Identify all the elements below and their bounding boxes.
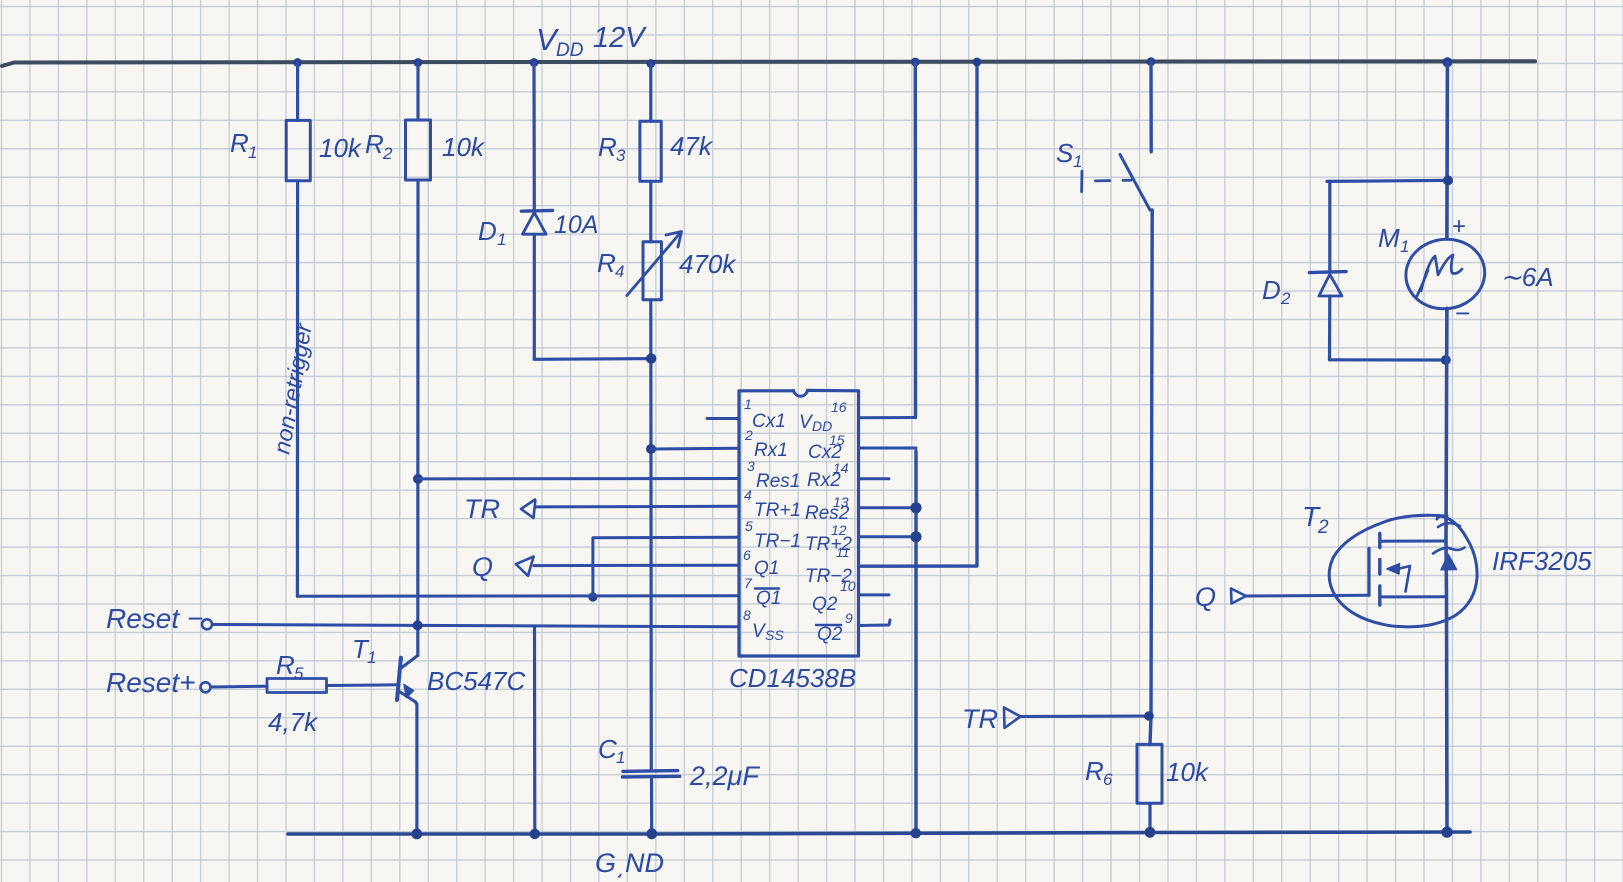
pin 2 label Rx1 <box>744 427 788 461</box>
svg-text:16: 16 <box>831 399 847 415</box>
node junction dot VDD/TR-2 column <box>973 58 982 67</box>
node VDD label 12V <box>536 22 647 61</box>
motor M1 <box>1378 213 1554 328</box>
svg-text:8: 8 <box>743 607 751 623</box>
svg-text:Q: Q <box>1195 582 1216 612</box>
svg-text:−: − <box>1455 298 1470 328</box>
node junction dot VDD/R3 <box>646 59 655 68</box>
pin 7 label Q1bar <box>744 575 781 609</box>
svg-text:Res2: Res2 <box>805 503 850 524</box>
svg-text:Rx1: Rx1 <box>754 440 788 461</box>
svg-text:DD: DD <box>556 40 584 61</box>
resistor R5 4,7k <box>267 650 327 737</box>
wire pin 1 stub <box>707 417 739 420</box>
node junction dot D2-bottom/motor column <box>1441 355 1451 365</box>
wire D2 bottom horizontal <box>1330 358 1446 361</box>
svg-text:1: 1 <box>1400 237 1409 256</box>
wire pin 2 stub to Rx column <box>651 447 739 451</box>
capacitor C1 <box>598 734 760 791</box>
node junction dot motor-column/GND <box>1441 827 1452 838</box>
svg-text:2: 2 <box>744 427 753 443</box>
wire Vss net down to GND <box>533 626 536 834</box>
svg-text:Q2: Q2 <box>812 594 838 615</box>
node junction dot TR/R6 <box>1144 711 1154 721</box>
node TR trigger arrow right <box>962 704 1021 734</box>
svg-text:10k: 10k <box>442 132 486 162</box>
svg-text:3: 3 <box>747 458 755 474</box>
svg-text:6: 6 <box>743 547 751 563</box>
svg-text:4: 4 <box>744 487 752 503</box>
switch S1 <box>1056 138 1150 210</box>
pin 5 label TR-1 <box>745 518 801 552</box>
wire pin 12 stub <box>859 535 917 538</box>
wire pin 8 Vss to Reset- terminal <box>213 625 739 627</box>
svg-text:SS: SS <box>765 627 784 643</box>
svg-text:Cx1: Cx1 <box>752 411 786 432</box>
svg-text:Res1: Res1 <box>756 471 800 492</box>
pin 15 label Cx2 <box>808 432 845 463</box>
node GND label <box>595 848 664 878</box>
svg-text:47k: 47k <box>670 131 714 161</box>
node junction dot VDD/D1 <box>530 58 539 67</box>
svg-text:BC547C: BC547C <box>427 666 525 696</box>
node junction dot VDD/R2 <box>414 58 423 67</box>
wire pin 6 Q1 to Q arrow <box>534 564 739 567</box>
resistor R3 <box>598 121 714 181</box>
wire pin 11 stub to VDD column <box>859 62 978 566</box>
resistor R1 <box>230 120 363 180</box>
pin 11 label TR-2 <box>805 566 856 594</box>
op-amp U1 IC CD14538B box <box>729 390 859 693</box>
svg-text:4: 4 <box>615 262 624 281</box>
wire R3 to R4 lead <box>649 181 652 241</box>
svg-text:M: M <box>1378 223 1400 253</box>
svg-text:9: 9 <box>845 610 853 626</box>
pin 9 label Q2bar <box>816 610 853 645</box>
wire pin 4 TR+1 to TR arrow <box>535 505 739 509</box>
svg-text:Reset −: Reset − <box>106 603 203 634</box>
wire R4 bottom lead down to C1 <box>649 300 653 771</box>
node Reset- terminal <box>106 603 212 634</box>
wire D1 top lead <box>532 63 535 210</box>
wire VDD top rail <box>2 61 1535 66</box>
diode D1 <box>478 210 598 249</box>
svg-text:1: 1 <box>497 230 506 249</box>
transistor T2 MOSFET symbol <box>1369 534 1465 606</box>
svg-text:IRF3205: IRF3205 <box>1492 546 1592 576</box>
svg-text:2: 2 <box>1280 289 1291 308</box>
wire C1 bottom lead <box>650 777 653 834</box>
node Reset+ terminal <box>106 667 211 698</box>
svg-text:2,2μF: 2,2μF <box>689 761 760 791</box>
node junction dot column/GND <box>911 828 921 838</box>
svg-text:Q1: Q1 <box>756 588 781 609</box>
svg-text:R: R <box>1085 756 1104 786</box>
node junction dot VDD/motor column <box>1442 57 1452 67</box>
node junction dot VDD/R1 <box>293 58 302 67</box>
pin 16 label VDD <box>799 399 847 434</box>
wire TR arrow to S1/R6 node <box>1021 715 1150 719</box>
wire pin 9 stub <box>859 620 891 626</box>
resistor R2 <box>365 120 486 180</box>
wire pin 13 stub <box>859 506 917 509</box>
svg-text:4,7k: 4,7k <box>268 707 319 737</box>
wire D1 to R4 bottom horizontal <box>534 357 651 361</box>
pin 1 label Cx1 <box>744 396 786 432</box>
svg-text:7: 7 <box>744 575 753 591</box>
pin 12 label TR+2 <box>805 522 852 560</box>
svg-text:1: 1 <box>1073 152 1082 171</box>
wire T1 emitter to GND <box>415 702 417 834</box>
transistor T1 BC547C <box>352 634 525 702</box>
wire VDD to pin 16 <box>914 62 918 418</box>
pin 6 label Q1 <box>743 547 779 579</box>
transistor T2 circle <box>1302 501 1592 627</box>
svg-text:R: R <box>276 650 295 680</box>
diode D2 <box>1262 272 1346 308</box>
node junction dot C1/GND <box>646 828 657 839</box>
svg-text:Q: Q <box>472 552 493 582</box>
wire GND bottom rail <box>288 832 1470 834</box>
wire Res2/TR+2 column to GND <box>914 451 917 833</box>
svg-text:Reset+: Reset+ <box>106 667 196 698</box>
node junction dot TR-1/Q1bar <box>588 592 597 601</box>
svg-text:TR: TR <box>464 494 500 524</box>
wire pin 7 Q1bar to R1 <box>297 594 739 597</box>
node junction dot R4/D1 <box>646 353 656 363</box>
svg-text:10k: 10k <box>1166 757 1210 787</box>
wire Reset+ to R5 <box>211 685 268 689</box>
wire R1 top lead <box>296 63 299 121</box>
svg-text:3: 3 <box>616 146 626 165</box>
node junction dot Vss-net/GND <box>530 829 540 839</box>
wire motor to T2 drain column <box>1446 308 1447 832</box>
svg-text:R: R <box>598 132 617 162</box>
pin 10 label Q2 <box>812 594 838 615</box>
svg-text:2: 2 <box>1317 517 1329 538</box>
svg-text:CD14538B: CD14538B <box>729 663 856 693</box>
wire pin 15 stub <box>859 447 917 450</box>
wire D1 bottom lead <box>533 234 536 359</box>
svg-text:C: C <box>598 734 617 764</box>
pin 14 label Rx2 <box>807 460 849 491</box>
svg-text:470k: 470k <box>679 249 737 279</box>
wire D2 bottom lead <box>1328 296 1332 360</box>
node junction dot pin12/column <box>910 531 921 542</box>
svg-text:1: 1 <box>367 648 376 667</box>
wire R2 top lead <box>416 63 419 121</box>
svg-text:∼6A: ∼6A <box>1500 262 1554 292</box>
node junction dot VDD/pin16 column <box>911 58 920 67</box>
node TR input arrow <box>464 494 535 524</box>
node Q output arrow <box>472 552 534 582</box>
wire R5 to T1 base <box>327 683 398 687</box>
wire R3 top lead <box>649 64 652 122</box>
node non-retrigger note <box>268 320 317 456</box>
pin 13 label Res2 <box>805 494 850 524</box>
pin 8 label Vss <box>743 607 784 643</box>
svg-text:TR+1: TR+1 <box>754 500 801 521</box>
svg-text:TR−1: TR−1 <box>754 531 801 552</box>
svg-text:2: 2 <box>382 144 393 163</box>
svg-text:1: 1 <box>744 396 752 412</box>
node junction dot R2/Res1 <box>413 474 423 484</box>
svg-text:6: 6 <box>1103 770 1113 789</box>
svg-text:D: D <box>1262 275 1281 305</box>
wire pin 5 TR-1 corner to Q1bar net <box>593 537 739 597</box>
wire D2 top lead <box>1328 181 1331 271</box>
wire motor column top <box>1445 62 1449 239</box>
svg-text:10: 10 <box>840 578 856 594</box>
svg-text:Q1: Q1 <box>754 558 779 579</box>
svg-text:11: 11 <box>836 545 850 560</box>
wire Q arrow to T2 gate <box>1246 594 1369 598</box>
pin 4 label TR+1 <box>744 487 801 521</box>
svg-text:G͵ND: G͵ND <box>595 848 664 878</box>
svg-text:1: 1 <box>248 143 257 162</box>
svg-text:S: S <box>1056 138 1074 168</box>
node Q gate arrow <box>1195 582 1246 612</box>
svg-text:R: R <box>230 128 249 158</box>
node junction dot Reset-/T1 column <box>413 620 423 630</box>
svg-text:10k: 10k <box>319 133 363 163</box>
svg-text:5: 5 <box>294 664 304 683</box>
svg-text:R: R <box>365 129 384 159</box>
wire pin 10 stub <box>859 593 890 596</box>
svg-text:+: + <box>1452 213 1466 240</box>
svg-text:10A: 10A <box>554 211 598 239</box>
wire R6 bottom lead <box>1148 803 1151 832</box>
svg-text:TR: TR <box>962 704 998 734</box>
wire pin 14 stub <box>859 477 890 480</box>
wire D2 top horizontal <box>1327 180 1448 181</box>
wire S1 bottom column to R6 <box>1150 210 1152 744</box>
wire R2 bottom lead to T1 collector <box>416 180 419 655</box>
svg-text:Rx2: Rx2 <box>807 470 841 491</box>
node junction dot Rx1 column <box>646 444 656 454</box>
svg-text:R: R <box>597 248 616 278</box>
svg-text:Q2: Q2 <box>817 624 843 645</box>
wire R1 bottom lead down <box>296 181 299 596</box>
svg-text:D: D <box>478 216 497 246</box>
node junction dot pin13/column <box>910 502 921 513</box>
pin 3 label Res1 <box>747 458 800 492</box>
wire pin 16 stub <box>859 416 916 419</box>
node junction dot T1/GND <box>411 829 422 840</box>
node junction dot D2-top/motor column <box>1443 175 1453 185</box>
potentiometer R4 470k <box>597 232 737 300</box>
wire S1 top lead <box>1149 62 1153 152</box>
node junction dot VDD/S1 <box>1147 57 1156 66</box>
resistor R6 10k <box>1085 744 1210 803</box>
svg-text:5: 5 <box>745 518 753 534</box>
svg-text:1: 1 <box>616 748 625 767</box>
svg-text:12V: 12V <box>593 22 647 54</box>
wire pin 3 Res1 to R2 column <box>418 477 739 480</box>
node junction dot R6/GND <box>1145 827 1156 838</box>
